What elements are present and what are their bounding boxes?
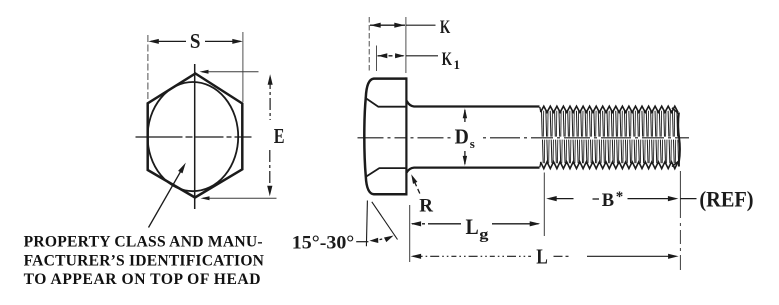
- svg-text:E: E: [274, 124, 285, 148]
- svg-text:K: K: [442, 49, 453, 70]
- svg-text:FACTURER’S IDENTIFICATION: FACTURER’S IDENTIFICATION: [24, 252, 265, 269]
- svg-text:L: L: [466, 214, 479, 239]
- svg-text:s: s: [470, 136, 475, 151]
- svg-text:D: D: [455, 125, 469, 149]
- svg-text:15°-30°: 15°-30°: [292, 232, 355, 253]
- svg-text:(REF): (REF): [699, 186, 753, 211]
- svg-text:1: 1: [454, 57, 461, 72]
- svg-text:L: L: [536, 244, 548, 268]
- svg-text:*: *: [616, 189, 624, 205]
- svg-text:PROPERTY CLASS AND MANU-: PROPERTY CLASS AND MANU-: [24, 233, 263, 250]
- svg-text:TO APPEAR ON TOP OF HEAD: TO APPEAR ON TOP OF HEAD: [24, 271, 261, 288]
- svg-text:S: S: [190, 29, 201, 53]
- svg-text:R: R: [419, 196, 433, 217]
- svg-text:g: g: [479, 227, 489, 243]
- svg-text:K: K: [440, 17, 451, 38]
- svg-text:B: B: [602, 191, 614, 211]
